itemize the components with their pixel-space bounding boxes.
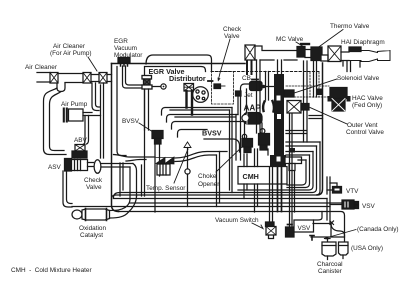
distributor body xyxy=(193,87,209,103)
duct drain pipes xyxy=(343,61,360,72)
vacuum switch xyxy=(266,222,277,239)
choke opener valve xyxy=(242,134,253,152)
canister tee fitting xyxy=(310,236,314,241)
AAP pump xyxy=(242,113,262,125)
svg-text:HAI Diaphragm: HAI Diaphragm xyxy=(341,39,385,46)
label Temp. Sensor xyxy=(146,185,186,192)
check valve (top, in box) xyxy=(214,84,225,89)
EGR vacuum modulator xyxy=(118,58,130,67)
svg-text:HAC Valve: HAC Valve xyxy=(352,95,383,102)
VSV bottom box xyxy=(294,220,314,232)
svg-text:ASV: ASV xyxy=(48,164,62,171)
leader MC valve xyxy=(296,42,304,47)
label CB xyxy=(242,75,251,82)
small dark fitting xyxy=(290,148,295,153)
legend CMH xyxy=(11,267,92,274)
label Choke Opener xyxy=(198,173,220,188)
svg-text:ABV: ABV xyxy=(74,137,88,144)
svg-text:BVSV: BVSV xyxy=(202,129,222,138)
label ASV xyxy=(48,164,62,171)
svg-text:(USA Only): (USA Only) xyxy=(351,245,383,252)
CMH label box xyxy=(238,167,287,185)
pipe modulator down to EGR valve xyxy=(123,66,143,88)
outer vent control valve xyxy=(287,101,309,114)
inner box EGR distributor area xyxy=(142,67,206,197)
distributor shaft xyxy=(184,84,194,92)
VSV right xyxy=(342,200,359,209)
thermo valve white port xyxy=(321,55,328,61)
pipe EGR valve down xyxy=(145,89,149,130)
label Check Valve (left) xyxy=(84,177,103,191)
label ABV xyxy=(74,137,88,144)
bundle L2b xyxy=(238,152,313,191)
air cleaner element 3 (X box) xyxy=(99,73,107,84)
label Charcoal Canister xyxy=(317,261,343,275)
engine box top edge xyxy=(112,63,246,65)
svg-text:CMH - Cold Mixture Heater: CMH - Cold Mixture Heater xyxy=(11,267,92,274)
svg-text:Control Valve: Control Valve xyxy=(346,129,384,136)
air cleaner inlet lines xyxy=(37,73,50,83)
svg-text:Solenoid Valve: Solenoid Valve xyxy=(337,75,380,82)
engine box right edge xyxy=(317,63,323,195)
vent triangle xyxy=(184,142,191,207)
label Thermo Valve xyxy=(330,23,370,30)
rounded manifold box below BVSV2 xyxy=(204,139,240,152)
charcoal canister 2 xyxy=(339,242,349,259)
catalyst outlet curve up xyxy=(125,196,137,212)
bundle L2 xyxy=(287,155,310,188)
svg-text:(Fed Only): (Fed Only) xyxy=(352,102,382,109)
label Air Cleaner xyxy=(25,64,58,71)
hose check valve to engine xyxy=(101,164,133,168)
temp sensor xyxy=(156,157,174,175)
pipe duct to ASV loop (left) xyxy=(44,88,67,155)
air cleaner element 2 (X box) xyxy=(83,73,91,84)
svg-text:VSV: VSV xyxy=(362,203,376,210)
duct X box left xyxy=(245,45,255,60)
tick on dashed box xyxy=(208,80,213,82)
MC valve xyxy=(297,44,322,61)
label BVSV (2) bold xyxy=(202,129,222,138)
svg-text:Canister: Canister xyxy=(318,268,343,275)
svg-text:Thermo Valve: Thermo Valve xyxy=(330,23,370,30)
ABV valve xyxy=(72,145,87,159)
svg-text:Air Cleaner: Air Cleaner xyxy=(53,43,86,50)
svg-text:Charcoal: Charcoal xyxy=(317,261,343,268)
svg-text:MC Valve: MC Valve xyxy=(276,36,304,43)
junction arrow xyxy=(330,221,334,225)
pipe duct down to air pump xyxy=(92,83,100,111)
EGR valve xyxy=(142,76,152,90)
label Air Cleaner (For Air Pump) xyxy=(50,43,92,57)
leader solenoid xyxy=(291,79,337,94)
svg-text:VSV: VSV xyxy=(298,225,312,232)
duct X box right xyxy=(328,46,341,62)
label Oxidation Catalyst xyxy=(79,225,106,239)
dashed box around check valve xyxy=(212,72,234,105)
leader to air pump cleaner xyxy=(88,57,97,71)
svg-text:(Canada Only): (Canada Only) xyxy=(357,226,399,233)
hose ASV down and right to catalyst xyxy=(63,171,72,207)
svg-text:CMH: CMH xyxy=(243,172,259,181)
chevrons xyxy=(263,101,274,112)
svg-text:Valve: Valve xyxy=(224,33,240,40)
leader check valve top with arrow xyxy=(218,39,230,80)
bundle L3 xyxy=(114,146,317,198)
label EGR Vacuum Modulator xyxy=(114,38,143,59)
svg-text:EGR: EGR xyxy=(114,38,128,45)
choke breaker diaphragm xyxy=(259,129,270,150)
hose above inner box into dashed box xyxy=(146,55,212,71)
svg-text:Catalyst: Catalyst xyxy=(80,232,103,239)
svg-text:Opener: Opener xyxy=(198,181,220,188)
duct connector xyxy=(91,75,99,82)
label HAC Valve (Fed Only) xyxy=(352,95,383,109)
main vacuum gallery thick bar xyxy=(274,74,284,156)
bundle L1 xyxy=(287,160,306,185)
solenoid valve xyxy=(284,90,294,97)
label AAP xyxy=(244,104,262,113)
pipe BVSV1 down xyxy=(155,144,160,212)
svg-text:VTV: VTV xyxy=(346,188,359,195)
label EGR Valve / Distributor xyxy=(149,67,206,83)
CMH heater element xyxy=(285,157,302,171)
vacuum switch 2 xyxy=(286,225,295,238)
label HAI Diaphragm xyxy=(341,39,385,46)
label Air Pump xyxy=(61,101,88,108)
air cleaner element 1 (X box) xyxy=(50,73,58,84)
svg-text:Temp. Sensor: Temp. Sensor xyxy=(146,185,186,192)
bundle L7 xyxy=(130,202,342,204)
VSV box feed from bundle xyxy=(314,212,323,221)
BVSV valve 1 xyxy=(152,131,163,145)
svg-text:Check: Check xyxy=(84,177,103,184)
svg-text:Oxidation: Oxidation xyxy=(79,225,106,232)
svg-text:Outer Vent: Outer Vent xyxy=(347,122,378,129)
label Jet xyxy=(244,92,253,99)
hose air pump outlet xyxy=(83,113,101,116)
pipe air pump down to ABV xyxy=(83,116,89,145)
outer vent right hoses xyxy=(309,116,323,119)
svg-text:(For Air Pump): (For Air Pump) xyxy=(50,50,92,57)
pipe air cleaner 3 down to check valve xyxy=(101,83,104,158)
dashed inner box right xyxy=(310,72,319,97)
leader choke opener xyxy=(216,143,246,172)
svg-text:Valve: Valve xyxy=(86,184,102,191)
bundle L6 xyxy=(114,198,328,200)
label BVSV (1) xyxy=(122,118,140,125)
leader temp sensor xyxy=(174,149,188,183)
temp sensor hose from left xyxy=(114,155,156,162)
label VTV xyxy=(346,188,359,195)
leader BVSV1 xyxy=(139,123,153,132)
svg-text:Air Pump: Air Pump xyxy=(61,101,88,108)
HAC valve xyxy=(328,88,351,112)
leader thermo valve xyxy=(318,30,343,48)
label (Canada Only) xyxy=(357,226,399,233)
svg-text:Jet: Jet xyxy=(244,92,253,99)
label VSV right xyxy=(362,203,376,210)
label Outer Vent Control Valve xyxy=(346,122,384,136)
svg-text:Check: Check xyxy=(223,26,242,33)
engine box inner hose along left edge xyxy=(117,67,126,156)
label (USA Only) xyxy=(351,245,383,252)
dashed top edge right section xyxy=(211,71,320,73)
right inner hoses from bar xyxy=(286,131,306,134)
EGR valve port circle xyxy=(152,84,166,89)
jet component xyxy=(236,91,242,96)
label MC Valve xyxy=(276,36,304,43)
bar bottom mass xyxy=(270,155,286,167)
oxidation catalyst xyxy=(72,208,129,221)
duct body xyxy=(255,46,297,60)
hose temp sensor to choke opener xyxy=(175,152,227,162)
label Solenoid Valve xyxy=(337,75,380,82)
VTV xyxy=(333,187,342,194)
air pump xyxy=(64,109,83,122)
svg-text:CB: CB xyxy=(242,75,251,82)
right column verticals xyxy=(327,177,330,224)
bundle L8 xyxy=(72,206,330,208)
canister hoses xyxy=(311,224,345,243)
label Check Valve (top) xyxy=(223,26,242,40)
duct step xyxy=(341,52,349,61)
CB rounded box xyxy=(241,84,250,160)
svg-text:Vacuum: Vacuum xyxy=(114,45,137,52)
nested manifold lines xyxy=(162,108,233,116)
label Vacuum Switch xyxy=(215,217,259,224)
HAI diaphragm xyxy=(349,47,361,52)
bundle L9 xyxy=(119,212,345,243)
charcoal canister 1 xyxy=(322,239,336,260)
svg-text:BVSV: BVSV xyxy=(122,118,140,125)
svg-text:Choke: Choke xyxy=(198,173,217,180)
snorkel xyxy=(349,51,390,62)
check valve (left) xyxy=(94,160,101,174)
bundle L4 xyxy=(112,142,321,199)
leader outer vent xyxy=(310,108,347,125)
svg-text:Distributor: Distributor xyxy=(169,74,206,83)
small valve on dashed line xyxy=(317,89,323,96)
distributor pipes down xyxy=(187,91,193,115)
center vertical hoses xyxy=(230,89,247,193)
pipe down to catalyst outlet xyxy=(130,164,137,200)
CB valve xyxy=(250,80,275,91)
engine box left edge xyxy=(112,64,119,212)
duct stub down xyxy=(57,83,65,92)
ASV valve xyxy=(65,159,94,172)
air duct between cleaners xyxy=(58,74,83,83)
svg-text:Air Cleaner: Air Cleaner xyxy=(25,64,58,71)
